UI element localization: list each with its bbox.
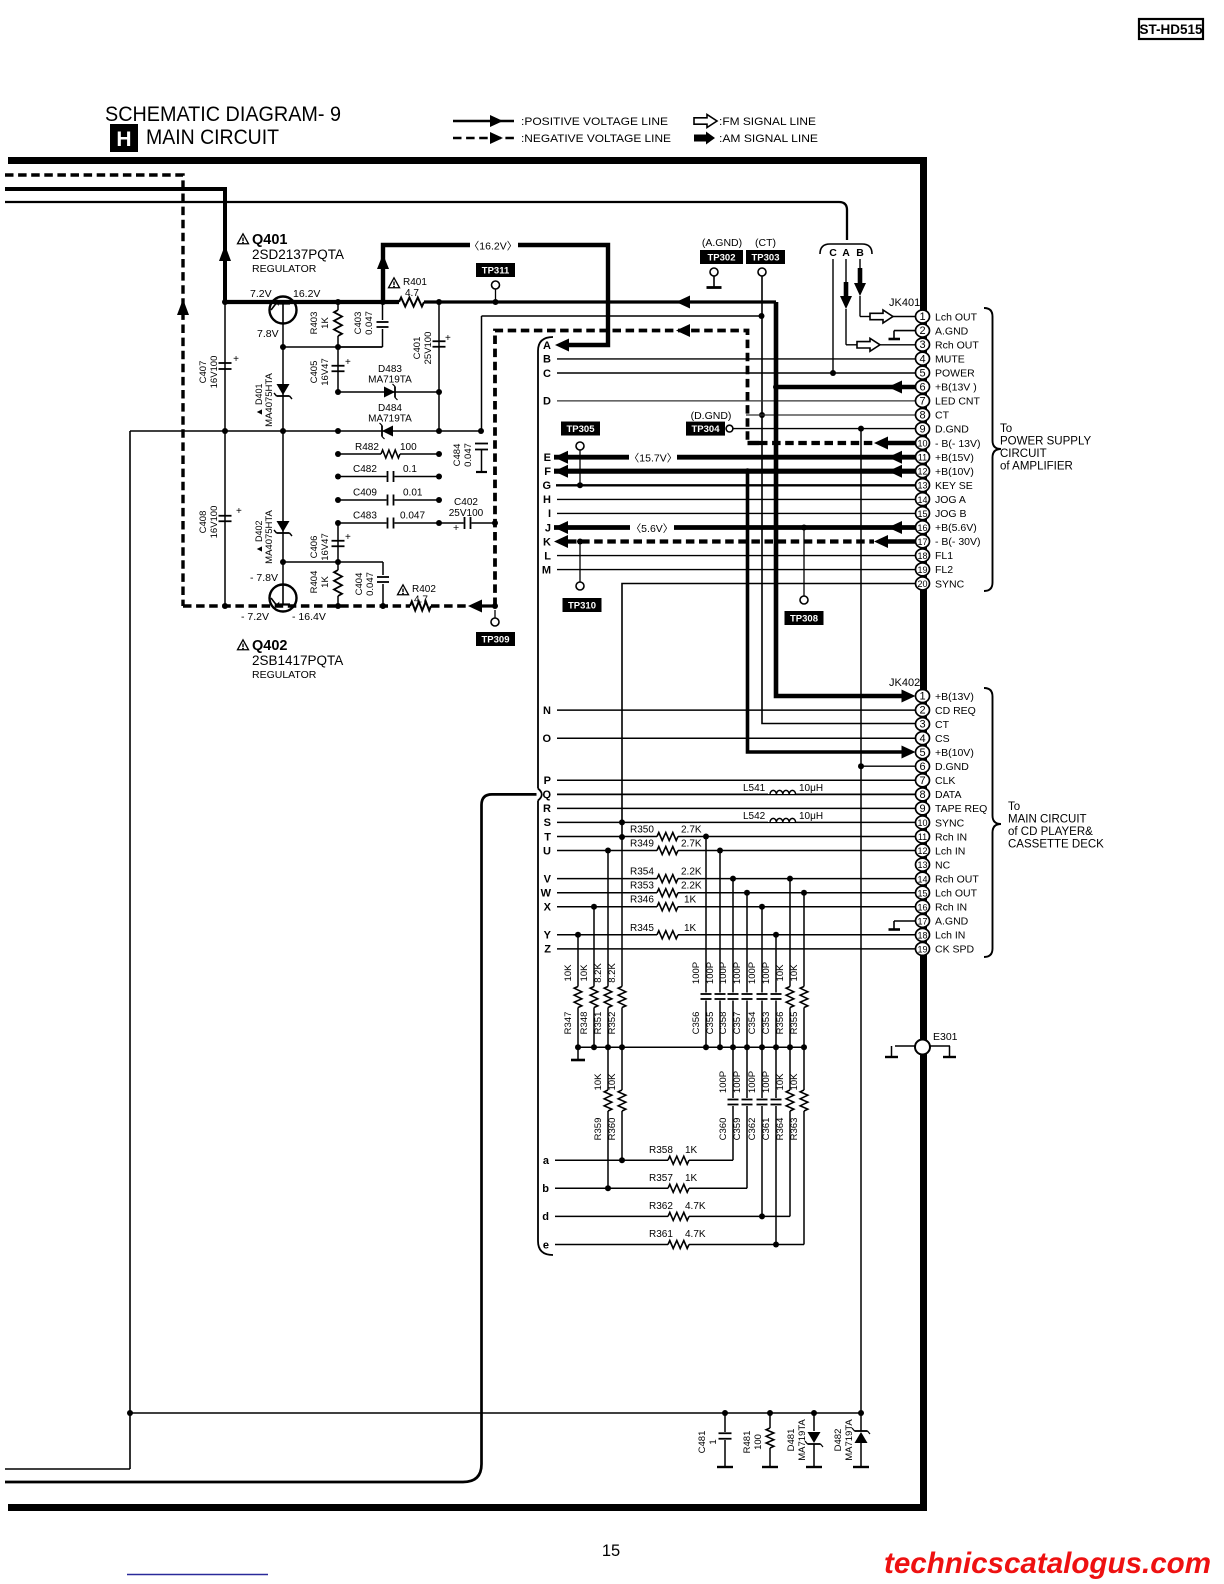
row U wire with R349 [557, 850, 657, 852]
svg-text:100P: 100P [761, 962, 772, 984]
svg-text:〈16.2V〉: 〈16.2V〉 [469, 241, 517, 253]
resistor R482 row y454 [338, 453, 381, 455]
legend AM signal line [694, 132, 818, 146]
title SCHEMATIC DIAGRAM- 9 [105, 102, 341, 126]
16.2V inline label [470, 238, 518, 252]
capacitor C361 column [775, 1047, 777, 1098]
svg-text:C407: C407 [198, 361, 209, 384]
svg-text:MUTE: MUTE [935, 353, 965, 365]
resistor R352 column [621, 837, 623, 987]
frame right edge [920, 157, 927, 1511]
svg-text:V: V [544, 873, 552, 885]
capacitor C359 column [746, 1047, 748, 1098]
svg-text::POSITIVE VOLTAGE LINE: :POSITIVE VOLTAGE LINE [521, 116, 668, 128]
resistor R481 [769, 1413, 771, 1428]
svg-text:6: 6 [919, 381, 925, 393]
svg-text:CT: CT [935, 719, 950, 731]
base node line y347 [283, 346, 382, 348]
svg-text:C359: C359 [732, 1118, 743, 1141]
svg-text:R401: R401 [403, 277, 427, 288]
svg-text:TP305: TP305 [567, 424, 596, 435]
svg-text:〈5.6V〉: 〈5.6V〉 [631, 523, 674, 535]
svg-text:R347: R347 [563, 1012, 574, 1035]
ground at JK401 pin2 [894, 330, 916, 332]
svg-text:2.7K: 2.7K [681, 825, 702, 836]
arrow left on dashed y330 [676, 324, 690, 337]
svg-text:Rch OUT: Rch OUT [935, 339, 979, 351]
svg-text:U: U [543, 845, 551, 857]
svg-text:9: 9 [919, 424, 925, 436]
svg-text::NEGATIVE VOLTAGE LINE: :NEGATIVE VOLTAGE LINE [521, 133, 671, 145]
svg-text:C404: C404 [354, 573, 365, 596]
legend positive voltage line [453, 115, 668, 128]
svg-text:16V100: 16V100 [209, 506, 220, 539]
capacitor C481 [724, 1413, 726, 1432]
svg-text:CK SPD: CK SPD [935, 944, 975, 956]
svg-text:16: 16 [917, 902, 927, 912]
arrow up on x225 vertical [219, 245, 231, 261]
svg-text:S: S [544, 817, 551, 829]
svg-text:TAPE REQ: TAPE REQ [935, 803, 987, 815]
svg-text:D484: D484 [378, 403, 402, 414]
svg-text:+B(10V): +B(10V) [935, 466, 974, 478]
JK402 pin 3 CT [916, 718, 930, 731]
svg-text:C: C [543, 368, 551, 380]
JK401 pin 1 Lch OUT [916, 310, 930, 323]
legend negative voltage line [453, 132, 671, 145]
arrow left on rail [676, 296, 690, 309]
connector bracket (rounded) [538, 337, 553, 1255]
row N wire [557, 709, 916, 711]
svg-text:JOG A: JOG A [935, 494, 966, 506]
diode D401 (zener) [282, 347, 284, 431]
svg-text:K: K [543, 536, 551, 548]
row d wire with R362 [555, 1215, 668, 1217]
wire thick positive from left edge to x225 [5, 189, 225, 302]
svg-text:4: 4 [919, 353, 925, 365]
svg-text:100: 100 [400, 442, 417, 453]
capacitor C354 column [761, 907, 763, 993]
arrow right into JK402 pin5 [902, 746, 916, 759]
capacitor C353 column [775, 935, 777, 993]
svg-text:10K: 10K [579, 964, 590, 982]
svg-text:W: W [541, 888, 552, 900]
svg-text:C481: C481 [697, 1431, 708, 1454]
svg-text:F: F [544, 466, 551, 478]
JK401 pin 11 +B(15V) [916, 451, 930, 464]
JK402 pin 18 Lch IN [916, 928, 930, 941]
svg-text:CIRCUIT: CIRCUIT [1000, 448, 1047, 460]
svg-text:25V100: 25V100 [449, 508, 484, 519]
svg-text:C360: C360 [718, 1118, 729, 1141]
svg-text:Y: Y [544, 930, 552, 942]
JK401 pin 4 MUTE [916, 352, 930, 365]
svg-text:0.047: 0.047 [364, 311, 375, 335]
brace JK401 [984, 308, 1001, 591]
svg-text:C358: C358 [718, 1012, 729, 1035]
svg-text:2SB1417PQTA: 2SB1417PQTA [252, 653, 343, 668]
svg-text:- B(- 30V): - B(- 30V) [935, 536, 981, 548]
svg-text:13: 13 [917, 860, 927, 870]
svg-text:14: 14 [917, 495, 927, 505]
JK402 pin 13 NC [916, 858, 930, 871]
rail 16.2V thick horizontal y302 [225, 300, 399, 304]
svg-text:0.047: 0.047 [463, 443, 474, 467]
row F wire +B10V [554, 469, 916, 474]
svg-text:A: A [842, 247, 850, 259]
svg-text:R364: R364 [775, 1118, 786, 1141]
svg-text:REGULATOR: REGULATOR [252, 263, 317, 275]
inductor L541 [768, 786, 796, 794]
JK401 pin 6 +B(13V ) [916, 380, 930, 393]
svg-text:2.7K: 2.7K [681, 839, 702, 850]
JK402 pin 12 Lch IN [916, 844, 930, 857]
dashed -B(-13V) row to JK401 pin10 [748, 441, 760, 445]
row J wire +B5.6V [554, 525, 916, 530]
svg-text:100P: 100P [718, 1071, 729, 1093]
svg-text:N: N [543, 705, 551, 717]
svg-text:technicscatalogus.com: technicscatalogus.com [884, 1547, 1211, 1580]
frame top edge [8, 157, 927, 164]
svg-text:R362: R362 [649, 1201, 673, 1212]
svg-text:C408: C408 [198, 511, 209, 534]
svg-text:Lch OUT: Lch OUT [935, 311, 978, 323]
Q401 labels [238, 234, 249, 244]
svg-text:FL1: FL1 [935, 550, 953, 562]
svg-text:Q: Q [542, 789, 551, 801]
svg-text:100P: 100P [691, 962, 702, 984]
svg-text:C355: C355 [705, 1012, 716, 1035]
svg-text:8.2K: 8.2K [607, 963, 618, 983]
svg-text:+B(10V): +B(10V) [935, 747, 974, 759]
svg-text:R350: R350 [630, 825, 654, 836]
frame bottom edge [8, 1504, 927, 1511]
svg-text:R345: R345 [630, 923, 654, 934]
svg-text:+B(5.6V): +B(5.6V) [935, 522, 977, 534]
svg-text:+B(13V ): +B(13V ) [935, 382, 977, 394]
JK402 pin 11 Rch IN [916, 830, 930, 843]
svg-text:R355: R355 [789, 1012, 800, 1035]
svg-text:R359: R359 [593, 1118, 604, 1141]
JK402 pin 17 A.GND [916, 914, 930, 927]
JK402 pin 15 Lch OUT [916, 886, 930, 899]
CT vertical wire x762 [762, 276, 916, 724]
svg-text:FL2: FL2 [935, 564, 953, 576]
JK401 pin 13 KEY SE [916, 479, 930, 492]
svg-text:1K: 1K [685, 1145, 698, 1156]
svg-text:of AMPLIFIER: of AMPLIFIER [1000, 461, 1073, 473]
svg-text:C406: C406 [309, 536, 320, 559]
svg-text:16V100: 16V100 [209, 356, 220, 389]
row H wire JOG A [557, 498, 916, 500]
row R wire [557, 807, 916, 809]
svg-text:5: 5 [919, 747, 925, 759]
svg-text:8.2K: 8.2K [593, 963, 604, 983]
capacitor C355 column [719, 851, 721, 993]
svg-text:- 7.8V: - 7.8V [250, 572, 278, 584]
diode D483 line y392 [338, 391, 439, 393]
TP311 [476, 263, 515, 277]
svg-text:R348: R348 [579, 1012, 590, 1035]
emitter node line y562 [283, 561, 383, 563]
svg-text:R358: R358 [649, 1145, 673, 1156]
JK402 pin 5 +B(10V) [916, 746, 930, 759]
LED CNT row to JK401 pin7 [557, 400, 916, 402]
junction dots on rail [222, 299, 228, 305]
JK401 pin 12 +B(10V) [916, 465, 930, 478]
diode D402 (zener) [282, 431, 284, 585]
+B(10V) vertical x747 [748, 471, 903, 752]
svg-text:+B(15V): +B(15V) [935, 452, 974, 464]
row X wire with R346 [557, 906, 657, 908]
svg-text:C405: C405 [309, 361, 320, 384]
svg-text:6: 6 [919, 761, 925, 773]
row B wire to MUTE [557, 358, 916, 360]
svg-text:JK401: JK401 [889, 297, 920, 309]
svg-text:R349: R349 [630, 839, 654, 850]
JK402 pin 6 D.GND [916, 760, 930, 773]
arrow left on pin6 row [888, 381, 902, 394]
row V wire with R354 [557, 878, 657, 880]
row E wire +B15V [554, 455, 916, 460]
svg-text:17: 17 [917, 537, 927, 547]
16.2V feed line with label [383, 245, 608, 345]
model number box ST-HD515 [1139, 19, 1203, 39]
svg-text:L: L [544, 550, 551, 562]
svg-text:0.047: 0.047 [400, 511, 425, 522]
capacitor C357 column [746, 893, 748, 993]
R403 leads [337, 302, 339, 310]
resistor R355 column [803, 893, 805, 987]
svg-text:Rch IN: Rch IN [935, 831, 967, 843]
svg-text:C482: C482 [353, 464, 377, 475]
svg-text:11: 11 [918, 832, 927, 842]
svg-text:D482: D482 [833, 1429, 844, 1452]
svg-text:CT: CT [935, 410, 950, 422]
svg-text:100P: 100P [761, 1071, 772, 1093]
JK401 pin 14 JOG A [916, 493, 930, 506]
svg-text:14: 14 [917, 874, 927, 884]
svg-text:R357: R357 [649, 1173, 673, 1184]
svg-text:SYNC: SYNC [935, 578, 965, 590]
JK401 pin 20 SYNC [916, 577, 930, 590]
svg-text:3: 3 [919, 339, 925, 351]
resistor R360 column [621, 1047, 623, 1090]
bottom D.GND distribution line y1413 [130, 1412, 861, 1414]
svg-text:1: 1 [919, 691, 925, 703]
bottom-left wire y1469 [5, 1468, 130, 1470]
capacitor C404 [382, 562, 384, 575]
capacitor C362 column [761, 1047, 763, 1098]
svg-text:TP310: TP310 [568, 601, 596, 612]
svg-text:7.8V: 7.8V [257, 328, 279, 340]
svg-text:LED CNT: LED CNT [935, 396, 981, 408]
svg-text:+B(13V): +B(13V) [935, 691, 974, 703]
svg-text:To: To [1000, 423, 1012, 435]
svg-text:R356: R356 [775, 1012, 786, 1035]
vertical x337 lower [337, 523, 339, 562]
svg-text:P: P [544, 775, 551, 787]
svg-text:1: 1 [708, 1439, 719, 1444]
corner x130 down long vertical [129, 431, 131, 1469]
capacitor C482 row y476.5 [338, 476, 387, 478]
svg-text:a: a [543, 1155, 550, 1167]
main node line y431 [130, 430, 481, 432]
svg-text:- 7.2V: - 7.2V [241, 611, 269, 623]
wire A to Rch OUT with AM arrow down [845, 259, 847, 282]
svg-text:19: 19 [917, 565, 927, 575]
svg-text:D483: D483 [378, 364, 402, 375]
svg-text:+: + [345, 532, 351, 543]
svg-text:C403: C403 [353, 312, 364, 335]
svg-text:CD REQ: CD REQ [935, 705, 976, 717]
svg-text:4.7: 4.7 [414, 595, 428, 606]
svg-text:R346: R346 [630, 895, 654, 906]
svg-text:R363: R363 [789, 1118, 800, 1141]
row I wire JOG B [557, 512, 916, 514]
svg-text:Q402: Q402 [252, 638, 287, 654]
svg-text:A.GND: A.GND [935, 916, 969, 928]
capacitor C406 [332, 540, 345, 542]
svg-text:D481: D481 [786, 1429, 797, 1452]
capacitor C360 column [732, 1047, 734, 1098]
svg-text:J: J [545, 522, 551, 534]
svg-text:10: 10 [917, 818, 927, 828]
svg-text:25V100: 25V100 [423, 332, 434, 365]
svg-text:11: 11 [918, 453, 927, 463]
ground at JK402 pin17 [894, 920, 916, 922]
svg-text::FM SIGNAL LINE: :FM SIGNAL LINE [719, 116, 816, 128]
svg-text:10: 10 [917, 439, 927, 449]
JK401 pin 15 JOG B [916, 507, 930, 520]
TP308 [803, 528, 805, 597]
svg-text:D: D [543, 396, 551, 408]
negative dashed rail y606 [183, 604, 410, 608]
svg-text:To: To [1008, 801, 1020, 813]
svg-text:MA4075HTA: MA4075HTA [264, 373, 275, 427]
svg-text:C484: C484 [452, 444, 463, 467]
svg-text:1K: 1K [684, 923, 697, 934]
wire from left edge to CAB bend [5, 202, 847, 240]
resistor R347 column [577, 935, 579, 987]
JK401 pin 10 - B(- 13V) [916, 436, 930, 449]
svg-text:(D.GND): (D.GND) [691, 410, 732, 422]
resistor R403 [334, 310, 342, 336]
svg-text:C354: C354 [747, 1012, 758, 1035]
svg-text:Rch IN: Rch IN [935, 902, 967, 914]
svg-text:R361: R361 [649, 1229, 673, 1240]
R401 label [389, 278, 400, 288]
svg-text:4.7K: 4.7K [685, 1201, 706, 1212]
resistor R348 column [593, 907, 595, 987]
svg-text:12: 12 [917, 846, 927, 856]
FM arrow on Rch OUT line [857, 338, 880, 351]
svg-text:1K: 1K [320, 576, 331, 588]
capacitor C401 [438, 302, 440, 431]
svg-text:+: + [445, 333, 451, 344]
svg-text:15: 15 [917, 509, 927, 519]
svg-text:C356: C356 [691, 1012, 702, 1035]
row b wire with R357 [555, 1187, 668, 1189]
diode D481 [813, 1413, 815, 1431]
svg-text:H: H [116, 128, 131, 151]
svg-text:R352: R352 [607, 1012, 618, 1035]
svg-text:L541: L541 [743, 783, 766, 794]
svg-text:2: 2 [919, 705, 925, 717]
svg-text:(A.GND): (A.GND) [702, 237, 742, 249]
svg-text:100P: 100P [718, 962, 729, 984]
svg-text:- B(- 13V): - B(- 13V) [935, 438, 981, 450]
svg-text:7.2V: 7.2V [250, 288, 272, 300]
JK402 pin 8 DATA [916, 788, 930, 801]
svg-text:R482: R482 [355, 442, 379, 453]
svg-text:A.GND: A.GND [935, 325, 969, 337]
bracket jog at Q wire [538, 789, 542, 801]
JK402 pin 14 Rch OUT [916, 872, 930, 885]
CT branch line y316 [482, 315, 762, 317]
svg-text:L542: L542 [743, 811, 766, 822]
svg-text:X: X [544, 902, 552, 914]
capacitor C358 column [732, 879, 734, 993]
resistor R363 column [803, 1047, 805, 1090]
svg-text:16: 16 [917, 523, 927, 533]
svg-text:SYNC: SYNC [935, 817, 965, 829]
FM arrow on Lch OUT line [870, 310, 893, 323]
svg-text:100P: 100P [732, 962, 743, 984]
rail right of R401 to corner x776 [424, 300, 776, 303]
svg-text:10K: 10K [775, 964, 786, 982]
svg-text:0.047: 0.047 [365, 572, 376, 596]
svg-text:▲ D401: ▲ D401 [254, 384, 264, 417]
svg-text:KEY SE: KEY SE [935, 480, 973, 492]
svg-text:+: + [236, 506, 242, 517]
svg-text:MA719TA: MA719TA [368, 375, 412, 386]
svg-text:2.2K: 2.2K [681, 867, 702, 878]
svg-text:0.01: 0.01 [403, 488, 423, 499]
svg-text:18: 18 [917, 930, 927, 940]
svg-text:100: 100 [753, 1434, 764, 1450]
svg-text:CS: CS [935, 733, 950, 745]
svg-text:1K: 1K [684, 895, 697, 906]
svg-text:R354: R354 [630, 867, 654, 878]
JK402 pin 1 +B(13V) [916, 690, 930, 703]
capacitor C403 [382, 302, 384, 320]
wire negative dashed from left edge [5, 175, 183, 606]
JK401 pin 17 - B(- 30V) [916, 535, 930, 548]
svg-text:C357: C357 [732, 1012, 743, 1035]
svg-text:+: + [345, 357, 351, 368]
JK401 pin 16 +B(5.6V) [916, 521, 930, 534]
svg-text:C361: C361 [761, 1118, 772, 1141]
legend FM signal line [694, 115, 816, 129]
svg-text:TP309: TP309 [482, 635, 510, 646]
svg-text:TP311: TP311 [482, 266, 510, 277]
capacitor C405 [337, 347, 339, 392]
row L wire FL1 [557, 555, 916, 557]
svg-text:C409: C409 [353, 488, 377, 499]
svg-text:Lch IN: Lch IN [935, 845, 965, 857]
transistor Q401 [270, 297, 297, 324]
svg-text:〈15.7V〉: 〈15.7V〉 [629, 453, 677, 465]
JK401 pin 3 Rch OUT [916, 338, 930, 351]
svg-text:C401: C401 [412, 337, 423, 360]
svg-text:Lch IN: Lch IN [935, 930, 965, 942]
svg-text:10K: 10K [563, 964, 574, 982]
row W wire with R353 [557, 892, 657, 894]
svg-text:M: M [542, 564, 551, 576]
svg-text:CLK: CLK [935, 775, 955, 787]
JK402 pin 2 CD REQ [916, 704, 930, 717]
